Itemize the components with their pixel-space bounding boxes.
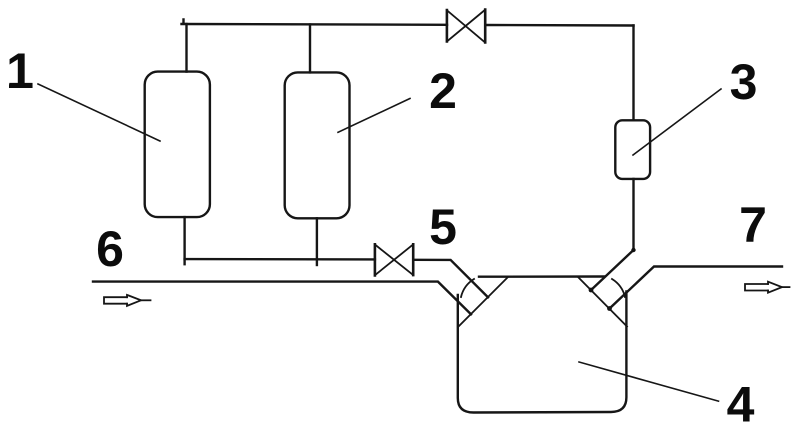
pipe line 6 (93, 282, 471, 315)
wire vessels to valve 5 (185, 258, 375, 261)
wire riser from top header to component 3 (632, 26, 634, 121)
valve V5 (375, 244, 413, 275)
vessel 2 (285, 72, 350, 218)
leader line 4 (579, 362, 719, 401)
wire top header left segment (182, 20, 448, 25)
svg-text:3: 3 (730, 54, 758, 110)
svg-text:5: 5 (429, 199, 457, 255)
nozzle right mouth arc (612, 279, 625, 297)
svg-text:7: 7 (739, 197, 767, 253)
tank 4 body (458, 292, 627, 413)
leader line 1 (38, 84, 160, 141)
vessel 1 (145, 72, 210, 218)
nozzle right chamfer (578, 277, 627, 327)
nozzle left mouth arc (461, 279, 474, 297)
svg-text:2: 2 (429, 63, 457, 119)
wire vessel 2 bottom stub (316, 218, 318, 265)
junction dot right chamfer upper (589, 288, 594, 293)
junction dot right chamfer lower (607, 306, 612, 311)
wire stub to vessel 2 (309, 25, 311, 73)
junction dot elbow 3 (631, 248, 635, 252)
pipe tank to line 7 (610, 267, 783, 309)
component 3 (615, 120, 650, 179)
nozzle left chamfer (458, 277, 508, 327)
valve V-top (447, 10, 485, 43)
svg-text:6: 6 (96, 221, 124, 277)
svg-text:4: 4 (727, 377, 755, 433)
label 1 (6, 43, 34, 99)
wire stub to vessel 1 (185, 24, 187, 72)
pipe component 3 to tank nozzle (591, 179, 634, 290)
wire vessel 1 bottom stub (183, 217, 185, 264)
wire top header right segment (485, 24, 633, 27)
wire valve 5 to tank nozzle (413, 260, 488, 298)
leader line 2 (338, 99, 410, 133)
flow arrow on line 7 (745, 282, 790, 293)
leader line 3 (633, 89, 721, 155)
tank 4 top edge (479, 275, 604, 278)
flow arrow on line 6 (104, 295, 151, 306)
svg-text:1: 1 (6, 43, 34, 99)
